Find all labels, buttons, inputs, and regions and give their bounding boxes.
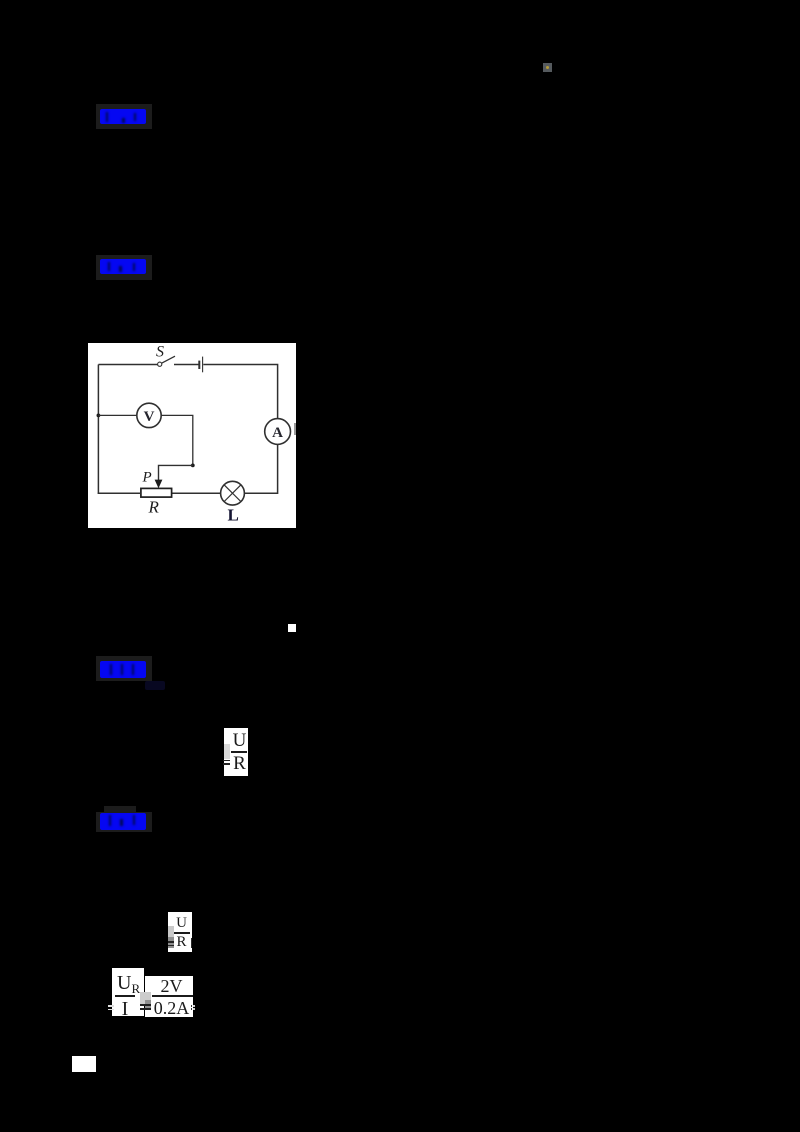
header block 1 blue text blob [100,109,146,124]
formula 3 middle equals [140,1004,151,1006]
scrollbar remnant at panel right edge [294,423,296,435]
switch S lever [162,356,175,363]
formula 3 left equals (white on black) [108,1005,115,1007]
battery negative plate (short) [198,361,200,369]
battery positive plate (long) [202,357,204,373]
header block 1 gray backing [96,104,152,129]
svg-text:A: A [272,425,283,441]
wire lamp to rheostat [172,492,221,494]
wire junction to voltmeter [98,414,136,416]
wire voltmeter right then down [161,415,193,465]
wire battery to top-right corner and down [203,365,277,419]
lamp L cross stroke 2 [224,485,241,502]
wire top-left horizontal to switch [98,364,157,366]
ammeter U1 circle [265,419,291,445]
white square mid page [288,624,296,632]
lamp L circle [221,481,245,505]
header block 2 gray backing [96,255,152,280]
formula 3 left box: U_R over I [112,968,144,1016]
junction node left [97,414,101,418]
wire rheostat to bottom-left corner [98,492,141,494]
svg-text:P: P [142,470,152,486]
svg-text:R: R [148,498,160,517]
header block 2 blue text blob [100,259,146,274]
svg-text:L: L [228,506,239,525]
bottom-left white image stub [72,1056,96,1072]
lamp L cross stroke 1 [224,485,241,502]
header block 3 gray backing [96,656,152,681]
svg-text:S: S [156,344,164,361]
voltmeter U2 circle [137,403,161,427]
wire ammeter down to bottom-right corner to lamp [244,444,277,493]
header block 4 blue text blob [100,813,146,830]
faint blue残 remnant under block 3 [145,681,165,690]
header block 3 blue text blob [100,661,146,678]
svg-text:V: V [144,409,155,425]
tiny toolbar icon top right [543,63,552,72]
circuit image white panel [88,343,296,528]
formula 1: = U/R fraction image [224,728,248,776]
wire tap to slider [159,465,193,480]
header block 4 gray backing [96,812,152,832]
formula 2: = U/R fraction image small [168,912,192,952]
wire switch to battery [174,364,199,366]
slider P arrowhead [155,480,163,489]
formula 3 right box: 2V over 0.2A [145,976,193,1018]
switch S pivot circle [158,362,162,366]
rheostat R body [141,488,172,497]
junction node slider tap [191,464,195,468]
formula 3 right equals half [191,1005,193,1007]
wire left vertical [97,365,99,494]
header block 4 small gray tab [104,806,136,814]
